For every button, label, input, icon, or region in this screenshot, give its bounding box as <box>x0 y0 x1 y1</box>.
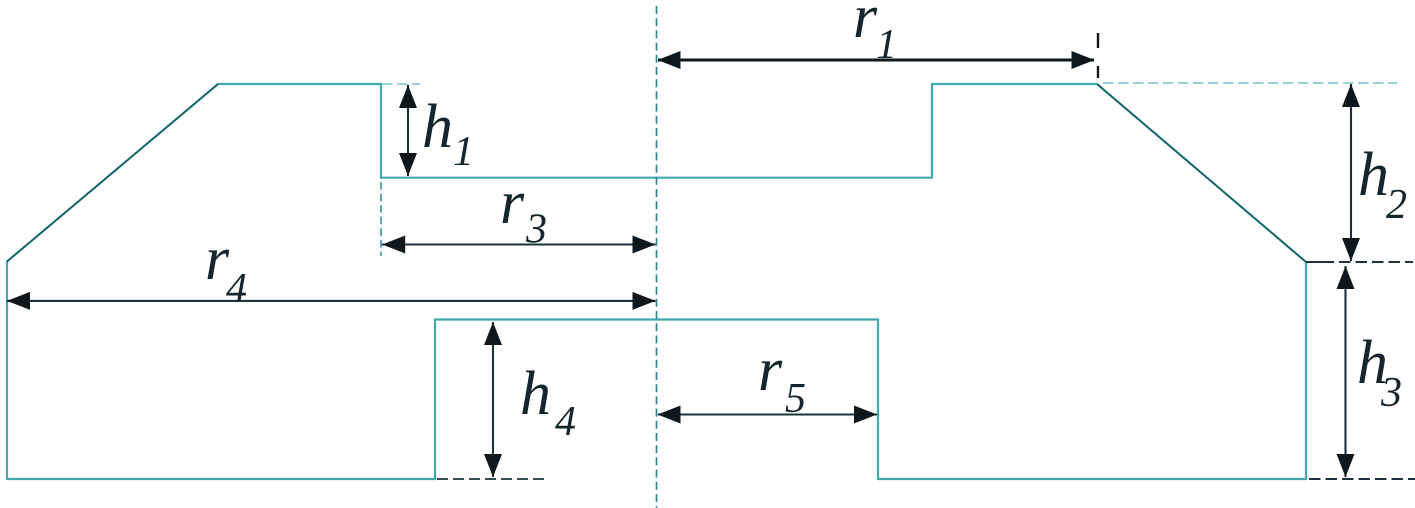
extension tick dashed dark: above r1 right arrow at x=1098 <box>1097 33 1099 48</box>
dimension r1 line <box>658 59 1094 62</box>
extension dashed medium: vertical at x=381 below step <box>380 182 382 256</box>
svg-text:r: r <box>500 169 525 237</box>
extension dashed dark: bottom near h4 <box>437 478 545 480</box>
svg-text:h: h <box>422 93 453 161</box>
dimension r3 right arrowhead <box>633 236 656 254</box>
svg-text:r: r <box>853 0 878 51</box>
dimension r1 left arrowhead <box>658 51 681 69</box>
extension dashed dark: right side at y=262 <box>1306 261 1334 263</box>
extension dashed light: top-left plateau continuation <box>382 83 420 85</box>
svg-text:1: 1 <box>876 22 897 68</box>
extension dashed light: top-right plateau continuation <box>1103 82 1397 84</box>
dimension h1 bottom arrowhead <box>399 153 417 176</box>
dimension h3 line <box>1344 266 1346 477</box>
svg-text:3: 3 <box>1380 370 1402 416</box>
dimension h1 line <box>407 85 409 176</box>
svg-text:5: 5 <box>785 376 806 422</box>
dimension h4 line <box>492 322 494 477</box>
profile outline of cross-section <box>7 84 1306 479</box>
left slant edge (darker) <box>7 84 218 262</box>
right slant edge (darker) <box>1097 84 1306 262</box>
dimension r5 left arrowhead <box>658 406 681 424</box>
dimension h1 top arrowhead <box>399 85 417 108</box>
extension dashed dark: bottom right at y=479 <box>1309 478 1415 480</box>
centerline (vertical dashed axis) <box>656 6 658 508</box>
dimension r5 right arrowhead <box>854 406 877 424</box>
dimension r4 right arrowhead <box>633 292 656 310</box>
svg-text:2: 2 <box>1386 182 1407 228</box>
svg-text:4: 4 <box>555 399 576 445</box>
dimension r3 line <box>382 243 656 245</box>
svg-text:h: h <box>1358 141 1389 209</box>
dimension h2 line <box>1350 84 1352 261</box>
dimension r1 right arrowhead <box>1072 51 1095 69</box>
svg-text:3: 3 <box>525 207 547 253</box>
dimension h3 bottom arrowhead <box>1337 454 1355 477</box>
svg-text:r: r <box>758 336 783 404</box>
dimension h4 bottom arrowhead <box>484 454 502 477</box>
dimension h2 bottom arrowhead <box>1342 238 1360 261</box>
svg-text:1: 1 <box>453 129 474 175</box>
dimension h2 top arrowhead <box>1342 84 1360 107</box>
svg-text:4: 4 <box>226 266 247 312</box>
svg-text:h: h <box>520 360 551 428</box>
dimension h3 top arrowhead <box>1337 266 1355 289</box>
dimension r3 left arrowhead <box>382 236 405 254</box>
dimension r4 left arrowhead <box>7 292 30 310</box>
dimension r5 line <box>658 413 877 415</box>
dimension h4 top arrowhead <box>484 322 502 345</box>
dimension r4 line <box>7 300 656 302</box>
